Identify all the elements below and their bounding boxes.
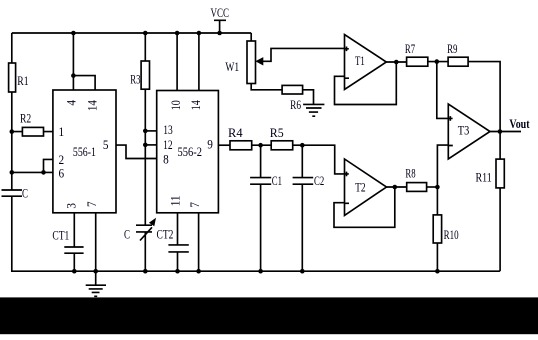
svg-text:C1: C1 bbox=[272, 175, 282, 189]
wire T1 output bbox=[386, 61, 406, 63]
capacitor C variable bbox=[136, 225, 152, 232]
svg-text:3: 3 bbox=[64, 203, 79, 209]
junction dots R4 R5 bbox=[258, 143, 263, 148]
ground R6 bbox=[303, 104, 324, 116]
junction dots left rail bbox=[10, 129, 15, 134]
svg-text:R6: R6 bbox=[290, 99, 301, 113]
wire T1 feedback bbox=[335, 62, 397, 105]
svg-text:R5: R5 bbox=[270, 126, 284, 140]
svg-text:6: 6 bbox=[59, 166, 65, 181]
wire T2 output bbox=[387, 186, 407, 188]
svg-text:T3: T3 bbox=[458, 125, 470, 138]
wire 556-1 pin2 branch bbox=[44, 159, 53, 172]
wire left rail upper bbox=[11, 33, 13, 63]
svg-text:9: 9 bbox=[207, 137, 213, 152]
wire 556-2 pin13 bbox=[145, 130, 156, 132]
svg-text:C2: C2 bbox=[314, 175, 324, 189]
wire T2 +input bbox=[302, 145, 344, 174]
svg-text:R1: R1 bbox=[17, 75, 28, 88]
svg-text:CT2: CT2 bbox=[157, 228, 174, 242]
junction dot T1 output bbox=[394, 60, 399, 65]
junction dot R8 R10 bbox=[435, 185, 440, 190]
svg-text:R10: R10 bbox=[444, 228, 459, 242]
svg-text:R3: R3 bbox=[130, 73, 140, 87]
svg-text:14: 14 bbox=[190, 100, 203, 110]
op-amp T1 bbox=[345, 35, 387, 90]
resistor R10 bbox=[436, 187, 438, 215]
wire 556-2 pin14 drop bbox=[198, 33, 200, 91]
wire 556-2 pin9 to R4 bbox=[218, 144, 230, 146]
svg-text:C: C bbox=[22, 187, 28, 201]
resistor R3 bbox=[144, 33, 146, 61]
junction dot Vout node bbox=[498, 129, 503, 134]
junction dot pin4 branch bbox=[71, 73, 76, 78]
wire T3 output bbox=[490, 131, 521, 133]
capacitor C1 bbox=[260, 145, 262, 177]
svg-text:Vout: Vout bbox=[509, 118, 529, 131]
svg-text:R8: R8 bbox=[405, 167, 415, 181]
resistor R9 bbox=[448, 57, 468, 66]
junction dot T2 output bbox=[393, 185, 398, 190]
capacitor CT2 bbox=[177, 213, 179, 245]
arrowhead W1 wiper bbox=[255, 57, 263, 65]
power VCC bbox=[214, 20, 226, 33]
junction dots R3 wire bbox=[143, 129, 148, 134]
op-amp T3 bbox=[448, 104, 490, 159]
svg-text:R2: R2 bbox=[20, 113, 31, 126]
svg-text:T2: T2 bbox=[355, 181, 366, 195]
wire 556-1 pin7 drop bbox=[95, 213, 97, 271]
svg-text:R7: R7 bbox=[405, 43, 416, 57]
svg-text:10: 10 bbox=[170, 100, 183, 110]
wire left rail mid bbox=[11, 92, 13, 190]
svg-text:T1: T1 bbox=[355, 55, 365, 69]
resistor R6 bbox=[282, 85, 303, 94]
capacitor C bbox=[2, 190, 23, 196]
svg-text:8: 8 bbox=[163, 152, 169, 167]
ground main bbox=[86, 271, 106, 296]
wire 556-2 pin10 drop bbox=[176, 33, 178, 91]
resistor R8 bbox=[407, 183, 427, 192]
arrowhead variable cap bbox=[149, 218, 156, 227]
svg-text:W1: W1 bbox=[225, 61, 239, 75]
svg-text:5: 5 bbox=[103, 138, 109, 153]
IC U2 556-2 bbox=[157, 91, 219, 213]
wire T2 feedback bbox=[334, 187, 395, 227]
svg-text:R9: R9 bbox=[447, 43, 457, 57]
wire 556-2 pin12 bbox=[145, 144, 156, 146]
wire 556-1 pin6 bbox=[12, 171, 53, 173]
wire 556-1 pin4 drop bbox=[72, 33, 74, 90]
svg-text:556-1: 556-1 bbox=[73, 146, 96, 159]
junction dot R7 R9 bbox=[435, 59, 440, 64]
capacitor C2 bbox=[301, 145, 303, 177]
svg-text:11: 11 bbox=[168, 195, 183, 206]
op-amp T2 bbox=[345, 159, 387, 215]
svg-text:VCC: VCC bbox=[211, 7, 229, 21]
resistor R4 bbox=[230, 141, 252, 150]
resistor R11 bbox=[499, 132, 501, 160]
resistor R2 bbox=[12, 131, 53, 133]
wire 556-2 pin7 drop bbox=[198, 213, 200, 271]
black banner bbox=[0, 297, 538, 334]
IC U1 556-1 bbox=[53, 90, 116, 213]
resistor R7 bbox=[407, 57, 428, 66]
svg-text:556-2: 556-2 bbox=[178, 146, 203, 159]
junction dots top rail bbox=[71, 31, 76, 36]
wire T3 +input bbox=[437, 62, 449, 119]
svg-text:R11: R11 bbox=[476, 172, 492, 185]
wire top rail bbox=[12, 32, 251, 34]
svg-text:7: 7 bbox=[187, 202, 202, 208]
svg-text:7: 7 bbox=[85, 201, 100, 207]
svg-text:12: 12 bbox=[163, 139, 172, 153]
svg-text:C: C bbox=[124, 228, 130, 242]
svg-text:CT1: CT1 bbox=[52, 229, 69, 243]
wire pin5 to pin8 bbox=[116, 145, 157, 158]
wire T3 -input bbox=[437, 145, 448, 187]
wire 556-1 pin14 branch bbox=[73, 76, 95, 90]
wire left rail lower bbox=[12, 196, 500, 271]
resistor R1 bbox=[9, 63, 16, 92]
potentiometer W1 bbox=[250, 33, 252, 41]
resistor R5 bbox=[271, 141, 293, 150]
svg-text:14: 14 bbox=[86, 100, 100, 111]
junction dots bottom rail bbox=[72, 269, 77, 274]
svg-text:1: 1 bbox=[59, 124, 65, 139]
capacitor CT1 bbox=[73, 213, 75, 247]
wiper arrow W1 bbox=[261, 48, 345, 61]
svg-text:13: 13 bbox=[163, 124, 173, 138]
svg-text:R4: R4 bbox=[228, 126, 243, 140]
svg-text:4: 4 bbox=[64, 100, 79, 106]
